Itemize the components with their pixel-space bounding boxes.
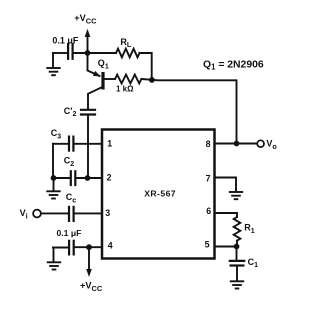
svg-text:6: 6 [206, 206, 211, 216]
svg-text:0.1 μF: 0.1 μF [57, 228, 82, 238]
svg-text:1 kΩ: 1 kΩ [116, 84, 134, 93]
svg-text:1: 1 [107, 139, 112, 149]
svg-text:5: 5 [205, 239, 210, 249]
svg-text:7: 7 [206, 173, 211, 183]
svg-text:4: 4 [108, 240, 113, 250]
svg-text:XR-567: XR-567 [144, 189, 176, 199]
svg-text:0.1 μF: 0.1 μF [52, 35, 79, 45]
svg-text:2: 2 [107, 173, 112, 183]
svg-text:8: 8 [206, 139, 211, 149]
svg-text:3: 3 [105, 208, 110, 218]
